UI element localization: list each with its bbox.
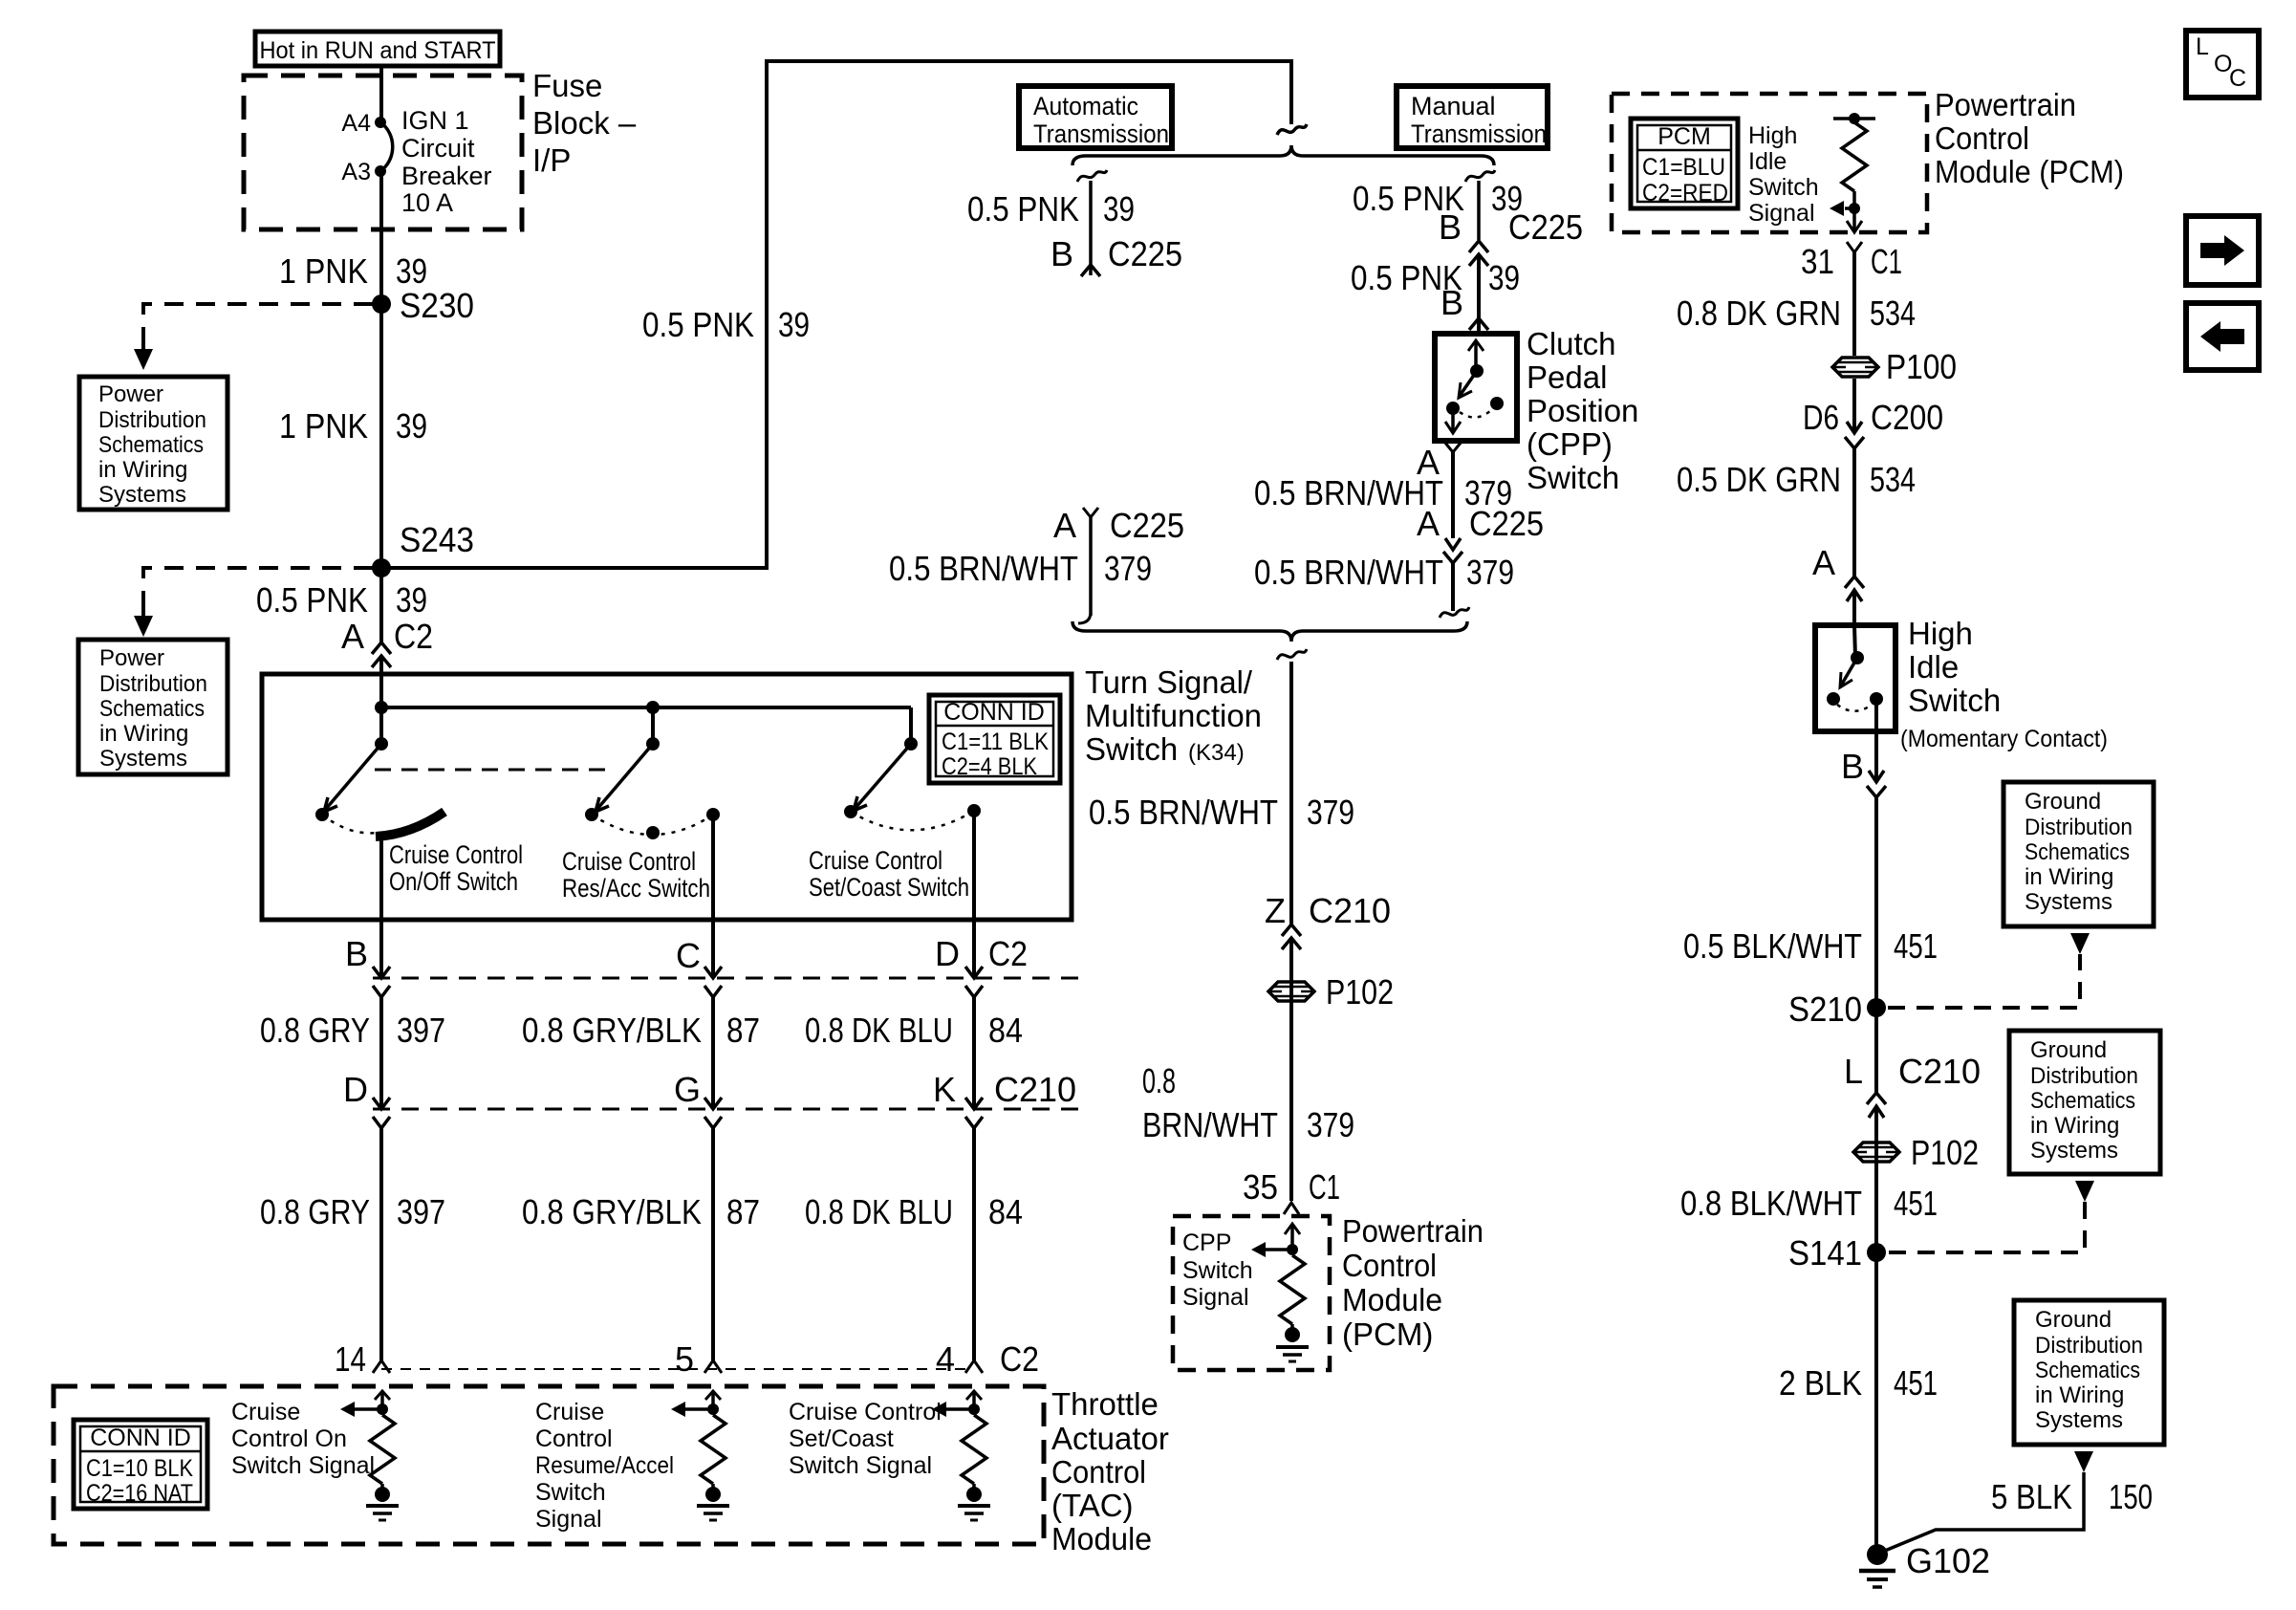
cruise control on switch signal label xyxy=(231,1399,375,1479)
svg-text:Systems: Systems xyxy=(98,482,186,508)
cruise control on/off switch label xyxy=(389,840,523,896)
svg-text:39: 39 xyxy=(778,305,810,344)
TAC cruise control set/coast circuit xyxy=(932,1391,990,1520)
svg-text:PCM: PCM xyxy=(1657,123,1711,150)
svg-text:451: 451 xyxy=(1894,1363,1938,1403)
svg-text:C1=BLU: C1=BLU xyxy=(1642,154,1725,181)
wire break squiggle top center xyxy=(1277,124,1307,135)
fork at PCM pin 35 xyxy=(1284,1203,1299,1214)
svg-text:0.5 PNK: 0.5 PNK xyxy=(256,580,368,620)
Automatic Transmission tag box xyxy=(1019,86,1172,148)
dashed reference from S141 xyxy=(1888,1181,2094,1252)
pin labels 14 5 4 C2 xyxy=(335,1339,1039,1379)
wire label 0.5 BRN/WHT 379 center xyxy=(1089,793,1354,832)
manual transmission branch wire xyxy=(1465,170,1495,240)
svg-text:P102: P102 xyxy=(1911,1133,1979,1172)
svg-text:Switch: Switch xyxy=(1908,683,2001,718)
svg-text:A: A xyxy=(1053,506,1076,545)
Throttle Actuator Control TAC Module annotation xyxy=(1051,1386,1169,1556)
wire from high idle switch pin B xyxy=(1874,699,1878,782)
wire label 0.5 PNK 39 below S243 xyxy=(256,580,427,620)
svg-text:Idle: Idle xyxy=(1908,649,1959,685)
Manual Transmission tag box xyxy=(1397,86,1548,148)
mechanical linkage dashed line xyxy=(375,769,608,772)
Power Distribution Schematics box 1 xyxy=(79,377,227,510)
pin 35 connector C1 xyxy=(1243,1167,1340,1207)
pin Z connector C210 xyxy=(1265,891,1391,930)
wire D from set/coast switch xyxy=(972,811,976,978)
pin L connector C210 right xyxy=(1844,1052,1981,1091)
pin B connector C225 manual xyxy=(1439,207,1583,247)
svg-text:A: A xyxy=(1812,543,1835,582)
inline connector chevrons at A xyxy=(1845,577,1864,601)
svg-text:in Wiring: in Wiring xyxy=(98,457,187,483)
svg-text:C225: C225 xyxy=(1469,504,1544,543)
svg-text:4: 4 xyxy=(936,1339,955,1379)
svg-text:Hot in RUN and START: Hot in RUN and START xyxy=(260,37,496,64)
svg-text:Ground: Ground xyxy=(2035,1307,2112,1333)
wire label 0.8 DK GRN 534 xyxy=(1677,294,1916,333)
svg-text:S141: S141 xyxy=(1788,1233,1862,1273)
svg-text:G: G xyxy=(674,1070,701,1109)
svg-text:Transmission: Transmission xyxy=(1033,120,1169,148)
svg-text:Distribution: Distribution xyxy=(2025,815,2133,840)
wire connector to switch box xyxy=(379,656,383,707)
svg-text:Control: Control xyxy=(1051,1454,1146,1490)
svg-text:Cruise Control: Cruise Control xyxy=(389,840,523,869)
CONN ID table in TAC box xyxy=(74,1420,207,1509)
svg-text:Control On: Control On xyxy=(231,1425,347,1452)
svg-text:G102: G102 xyxy=(1906,1541,1990,1580)
wire label 0.5 BLK/WHT 451 xyxy=(1683,926,1938,966)
High Idle Switch annotation xyxy=(1900,616,2108,752)
svg-text:Module: Module xyxy=(1051,1521,1152,1556)
svg-text:Signal: Signal xyxy=(1182,1284,1249,1311)
inline connector C210 chevrons center xyxy=(1282,925,1301,949)
svg-text:0.5 DK GRN: 0.5 DK GRN xyxy=(1677,460,1841,499)
switch feed bus inside box xyxy=(375,701,911,714)
wire connector to CPP switch xyxy=(1477,254,1481,334)
automatic transmission branch wire xyxy=(1077,170,1107,276)
svg-text:in Wiring: in Wiring xyxy=(2035,1382,2124,1408)
svg-text:Schematics: Schematics xyxy=(98,432,204,458)
svg-text:379: 379 xyxy=(1104,549,1152,588)
svg-text:Cruise: Cruise xyxy=(231,1399,300,1425)
svg-text:On/Off Switch: On/Off Switch xyxy=(389,867,518,896)
svg-text:0.5 BRN/WHT: 0.5 BRN/WHT xyxy=(1254,473,1443,512)
pin labels B C D C2 xyxy=(345,934,1028,975)
svg-text:0.8 DK GRN: 0.8 DK GRN xyxy=(1677,294,1841,333)
TAC connector thin dashed line xyxy=(381,1368,974,1370)
wire label 0.5 BRN/WHT 379 automatic side xyxy=(889,549,1152,588)
svg-text:Switch: Switch xyxy=(1085,731,1178,767)
wire label 1 PNK 39 second xyxy=(279,406,427,446)
svg-text:Cruise Control: Cruise Control xyxy=(789,1399,942,1425)
svg-text:84: 84 xyxy=(988,1011,1023,1050)
svg-text:High: High xyxy=(1748,122,1797,149)
svg-text:C: C xyxy=(2229,65,2246,92)
wire S230 to S243 xyxy=(379,304,383,568)
wire B to S210 xyxy=(1874,797,1878,1093)
svg-text:35: 35 xyxy=(1243,1167,1278,1207)
PCM lower dashed box xyxy=(1173,1216,1330,1370)
svg-text:A3: A3 xyxy=(341,159,371,185)
svg-text:Ground: Ground xyxy=(2030,1037,2107,1063)
svg-text:Schematics: Schematics xyxy=(2025,839,2130,865)
svg-text:C2=16 NAT: C2=16 NAT xyxy=(86,1480,193,1507)
svg-text:379: 379 xyxy=(1307,793,1354,832)
svg-text:C200: C200 xyxy=(1871,398,1943,437)
inline connector C225 chevrons manual xyxy=(1469,241,1488,266)
wire label 0.5 BRN/WHT 379 below CPP xyxy=(1254,473,1512,512)
svg-text:C1: C1 xyxy=(1309,1167,1340,1207)
svg-text:C210: C210 xyxy=(994,1070,1076,1109)
svg-text:0.5 BRN/WHT: 0.5 BRN/WHT xyxy=(1254,553,1443,592)
svg-text:L: L xyxy=(1844,1052,1863,1091)
wire to P102 center xyxy=(1289,938,1293,1201)
svg-text:Res/Acc Switch: Res/Acc Switch xyxy=(562,874,710,903)
TAC connector chevrons xyxy=(373,1360,983,1373)
svg-text:Throttle: Throttle xyxy=(1051,1386,1159,1422)
svg-text:Automatic: Automatic xyxy=(1033,92,1138,120)
svg-text:31: 31 xyxy=(1801,242,1834,281)
inline connector C225 chevrons below CPP xyxy=(1443,538,1462,563)
svg-text:Schematics: Schematics xyxy=(99,696,205,722)
svg-text:10 A: 10 A xyxy=(401,188,453,217)
svg-text:Cruise Control: Cruise Control xyxy=(562,847,696,876)
TAC cruise control resume/accel circuit xyxy=(671,1391,729,1520)
svg-text:Schematics: Schematics xyxy=(2035,1358,2140,1383)
left arrow legend box xyxy=(2186,303,2259,370)
svg-text:451: 451 xyxy=(1894,1184,1938,1223)
wire label 2 BLK 451 xyxy=(1779,1363,1938,1403)
splice S243 xyxy=(372,520,474,577)
svg-text:39: 39 xyxy=(396,580,427,620)
inline connector chevrons at B xyxy=(1867,771,1886,797)
center wire brace to Z C210 xyxy=(1289,662,1293,925)
wire S243 down to connector A C2 xyxy=(379,568,383,642)
svg-text:Manual: Manual xyxy=(1411,92,1496,120)
inline connector C200 chevrons xyxy=(1845,422,1864,448)
svg-text:(K34): (K34) xyxy=(1188,740,1245,766)
svg-text:Block –: Block – xyxy=(532,105,637,141)
connector C2 dashed line xyxy=(373,977,1083,980)
svg-text:C: C xyxy=(676,936,701,975)
fork at PCM pin 31 xyxy=(1847,242,1862,356)
cruise control res/acc switch xyxy=(585,707,720,839)
wires to TAC module xyxy=(381,1128,974,1360)
svg-text:Control: Control xyxy=(535,1425,613,1452)
Hot in RUN and START box xyxy=(255,32,500,66)
high idle switch signal label xyxy=(1748,122,1819,227)
branch label 0.5 PNK 39 automatic xyxy=(967,189,1135,228)
svg-text:39: 39 xyxy=(1103,189,1135,228)
circuit breaker IGN 1 xyxy=(375,117,393,177)
svg-text:K: K xyxy=(933,1070,956,1109)
wire break squiggle below brace xyxy=(1277,649,1307,660)
svg-text:C225: C225 xyxy=(1108,234,1182,273)
svg-text:534: 534 xyxy=(1870,460,1916,499)
dashed reference line from S230 xyxy=(134,304,373,370)
svg-text:Set/Coast: Set/Coast xyxy=(789,1425,894,1452)
wire label 0.5 DK GRN 534 xyxy=(1677,460,1916,499)
svg-text:87: 87 xyxy=(726,1011,760,1050)
wire labels 0.8 GRY/BLK 87 row1 xyxy=(522,1011,760,1050)
svg-text:I/P: I/P xyxy=(532,142,571,178)
svg-text:(TAC): (TAC) xyxy=(1051,1488,1134,1523)
svg-text:Multifunction: Multifunction xyxy=(1085,698,1262,733)
svg-text:Switch Signal: Switch Signal xyxy=(789,1452,932,1479)
Ground Distribution box 1 xyxy=(2004,782,2154,926)
splice S230 xyxy=(372,286,474,325)
Ground Distribution box 3 xyxy=(2014,1300,2164,1445)
top distribution brace xyxy=(1072,145,1494,165)
svg-text:0.8 BLK/WHT: 0.8 BLK/WHT xyxy=(1680,1184,1862,1223)
svg-text:C2: C2 xyxy=(988,934,1028,973)
svg-text:CONN ID: CONN ID xyxy=(90,1425,191,1451)
svg-text:in Wiring: in Wiring xyxy=(2025,864,2113,890)
svg-text:84: 84 xyxy=(988,1192,1023,1231)
svg-text:Distribution: Distribution xyxy=(99,671,207,697)
svg-text:Powertrain: Powertrain xyxy=(1935,87,2076,122)
svg-text:0.8 GRY: 0.8 GRY xyxy=(260,1011,370,1050)
svg-text:Turn Signal/: Turn Signal/ xyxy=(1085,664,1253,700)
svg-text:B: B xyxy=(1051,234,1073,273)
svg-text:C225: C225 xyxy=(1508,207,1583,247)
svg-text:C210: C210 xyxy=(1898,1052,1981,1091)
splice S210 xyxy=(1788,990,1886,1029)
cruise control set/coast switch label xyxy=(809,846,969,902)
cruise control on/off switch xyxy=(315,707,444,837)
wire label 0.8 BLK/WHT 451 xyxy=(1680,1184,1938,1223)
svg-text:534: 534 xyxy=(1870,294,1916,333)
svg-text:Pedal: Pedal xyxy=(1527,359,1607,395)
pin labels D G K C210 xyxy=(343,1070,1076,1109)
svg-text:0.8 DK BLU: 0.8 DK BLU xyxy=(805,1011,953,1050)
pin D6 connector C200 xyxy=(1803,398,1943,437)
high idle switch signal circuit in PCM xyxy=(1830,113,1875,232)
svg-text:0.8 GRY: 0.8 GRY xyxy=(260,1192,370,1231)
svg-text:(PCM): (PCM) xyxy=(1342,1316,1433,1352)
cruise control resume/accel switch signal label xyxy=(535,1399,674,1533)
Turn Signal Multifunction Switch annotation xyxy=(1085,664,1262,767)
chevron at CPP pin B xyxy=(1469,318,1488,330)
svg-text:A: A xyxy=(1417,504,1440,543)
svg-text:0.8: 0.8 xyxy=(1142,1061,1176,1100)
pin A connector C2 labels xyxy=(341,617,433,656)
feed wire S243 to top rail xyxy=(381,61,1291,568)
svg-text:150: 150 xyxy=(2109,1477,2153,1516)
svg-text:CONN ID: CONN ID xyxy=(943,699,1045,726)
svg-text:C2=4 BLK: C2=4 BLK xyxy=(942,753,1037,780)
svg-text:0.8 GRY/BLK: 0.8 GRY/BLK xyxy=(522,1011,702,1050)
wire chevron to high idle switch xyxy=(1852,590,1856,625)
high idle switch element xyxy=(1827,625,1883,711)
connector C210 dashed line xyxy=(373,1108,1083,1111)
svg-text:Systems: Systems xyxy=(2035,1407,2123,1433)
TAC cruise control on circuit xyxy=(340,1391,399,1520)
Powertrain Control Module PCM upper annotation xyxy=(1935,87,2124,189)
svg-text:BRN/WHT: BRN/WHT xyxy=(1142,1105,1278,1144)
svg-text:0.8 GRY/BLK: 0.8 GRY/BLK xyxy=(522,1192,702,1231)
pass-through grommet P102 center xyxy=(1268,972,1394,1012)
svg-text:C2: C2 xyxy=(1000,1339,1039,1379)
connector arrows at C2 row xyxy=(373,967,983,997)
svg-text:D: D xyxy=(343,1070,368,1109)
Powertrain Control Module PCM lower annotation xyxy=(1342,1213,1484,1352)
svg-text:Switch Signal: Switch Signal xyxy=(231,1452,375,1479)
svg-text:Actuator: Actuator xyxy=(1051,1421,1169,1456)
CPP switch signal circuit in PCM xyxy=(1251,1224,1309,1361)
svg-text:Power: Power xyxy=(98,381,163,407)
Turn Signal Multifunction Switch box xyxy=(262,674,1072,920)
wire to brace manual side xyxy=(1440,563,1469,618)
svg-text:C1=11 BLK: C1=11 BLK xyxy=(942,729,1049,755)
dashed reference line from S243 xyxy=(134,568,373,637)
svg-text:Signal: Signal xyxy=(535,1506,602,1533)
svg-text:5: 5 xyxy=(675,1339,694,1379)
Power Distribution Schematics box 2 xyxy=(78,640,227,774)
svg-text:Transmission: Transmission xyxy=(1411,120,1547,148)
wire labels 0.8 DK BLU 84 row2 xyxy=(805,1192,1023,1231)
wire labels 0.8 GRY 397 row2 xyxy=(260,1192,445,1231)
wires between connector rows xyxy=(381,997,974,1109)
svg-text:A4: A4 xyxy=(341,110,371,137)
splice S141 xyxy=(1788,1233,1886,1273)
svg-text:2 BLK: 2 BLK xyxy=(1779,1363,1862,1403)
svg-text:C2: C2 xyxy=(394,617,433,656)
wire label 0.5 PNK 39 to CPP xyxy=(1351,258,1520,297)
cruise control set/coast switch signal label xyxy=(789,1399,942,1479)
svg-text:Resume/Accel: Resume/Accel xyxy=(535,1452,674,1479)
CONN ID table in switch box xyxy=(929,695,1060,783)
svg-text:S230: S230 xyxy=(400,286,474,325)
svg-text:Switch: Switch xyxy=(535,1479,606,1506)
pass-through grommet P102 right xyxy=(1853,1133,1979,1172)
wire labels 0.8 GRY 397 row1 xyxy=(260,1011,445,1050)
svg-text:Powertrain: Powertrain xyxy=(1342,1213,1484,1249)
svg-text:C1: C1 xyxy=(1871,242,1902,281)
svg-text:Control: Control xyxy=(1935,120,2029,156)
svg-text:Control: Control xyxy=(1342,1248,1437,1283)
svg-text:Distribution: Distribution xyxy=(2035,1333,2143,1359)
svg-text:5 BLK: 5 BLK xyxy=(1991,1477,2072,1516)
PCM connector id table xyxy=(1631,119,1738,208)
svg-text:39: 39 xyxy=(1488,258,1520,297)
svg-text:Schematics: Schematics xyxy=(2030,1088,2135,1114)
LOC legend box xyxy=(2186,31,2259,98)
ground G102 xyxy=(1859,1541,1990,1587)
pin B connector C225 automatic xyxy=(1051,234,1182,273)
svg-text:397: 397 xyxy=(397,1011,445,1050)
svg-text:C210: C210 xyxy=(1309,891,1391,930)
svg-text:Systems: Systems xyxy=(99,746,187,772)
svg-text:0.5 PNK: 0.5 PNK xyxy=(642,305,754,344)
svg-text:High: High xyxy=(1908,616,1973,651)
automatic side connector stub xyxy=(1078,508,1098,623)
svg-text:A: A xyxy=(341,617,364,656)
pin A connector C225 automatic side xyxy=(1053,506,1184,545)
svg-text:Systems: Systems xyxy=(2030,1138,2118,1164)
pin 31 connector C1 xyxy=(1801,242,1902,281)
wire labels 0.8 GRY/BLK 87 row2 xyxy=(522,1192,760,1231)
dashed reference from S210 xyxy=(1888,933,2090,1008)
cruise control set/coast switch xyxy=(844,707,981,830)
pin A connector C225 below CPP xyxy=(1417,504,1544,543)
svg-text:C1=10 BLK: C1=10 BLK xyxy=(86,1455,193,1482)
svg-text:Distribution: Distribution xyxy=(2030,1063,2138,1089)
svg-text:39: 39 xyxy=(396,251,427,291)
svg-text:0.5 BRN/WHT: 0.5 BRN/WHT xyxy=(889,549,1078,588)
Ground Distribution box 2 xyxy=(2009,1031,2160,1174)
svg-text:in Wiring: in Wiring xyxy=(2030,1113,2119,1139)
wire P100 to C200 xyxy=(1852,379,1856,433)
svg-text:Cruise Control: Cruise Control xyxy=(809,846,942,875)
svg-text:Switch: Switch xyxy=(1748,174,1819,201)
wire label 0.5 BRN/WHT 379 manual side xyxy=(1254,553,1514,592)
svg-text:Switch: Switch xyxy=(1182,1257,1253,1284)
svg-text:Switch: Switch xyxy=(1527,460,1619,495)
svg-text:C2=RED: C2=RED xyxy=(1642,180,1728,207)
svg-text:L: L xyxy=(2196,33,2209,60)
branch label 0.5 PNK 39 manual xyxy=(1353,179,1523,218)
svg-text:Z: Z xyxy=(1265,891,1286,930)
svg-text:C225: C225 xyxy=(1110,506,1184,545)
svg-text:379: 379 xyxy=(1466,553,1514,592)
wire label 1 PNK 39 xyxy=(279,251,427,291)
svg-text:Clutch: Clutch xyxy=(1527,326,1616,361)
wire label 0.8 BRN/WHT 379 center xyxy=(1142,1061,1354,1144)
svg-text:451: 451 xyxy=(1894,926,1938,966)
wire chevron to P102 right xyxy=(1874,1106,1878,1555)
right arrow legend box xyxy=(2186,216,2259,285)
svg-text:379: 379 xyxy=(1307,1105,1354,1144)
svg-text:Cruise: Cruise xyxy=(535,1399,604,1425)
svg-text:Circuit: Circuit xyxy=(401,134,475,163)
svg-text:Power: Power xyxy=(99,645,164,671)
svg-text:Fuse: Fuse xyxy=(532,68,602,103)
svg-text:14: 14 xyxy=(335,1339,366,1379)
svg-text:P100: P100 xyxy=(1886,347,1957,386)
wire label 5 BLK 150 xyxy=(1991,1477,2153,1516)
wire C from res/acc switch xyxy=(711,815,715,978)
svg-text:IGN 1: IGN 1 xyxy=(401,106,469,135)
CPP switch element xyxy=(1445,340,1504,433)
wire labels 0.8 DK BLU 84 row1 xyxy=(805,1011,1023,1050)
svg-text:Module (PCM): Module (PCM) xyxy=(1935,154,2124,189)
TAC module dashed box xyxy=(54,1386,1044,1544)
IGN 1 Circuit Breaker 10 A label xyxy=(401,106,492,217)
High Idle Switch box xyxy=(1815,625,1895,731)
fork at CPP switch output xyxy=(1444,442,1462,538)
wire C200 to A chevron xyxy=(1852,448,1856,577)
svg-text:in Wiring: in Wiring xyxy=(99,721,188,747)
svg-text:Ground: Ground xyxy=(2025,789,2101,815)
wire from Hot box to fuse block xyxy=(379,66,383,122)
svg-text:Breaker: Breaker xyxy=(401,162,492,190)
svg-text:0.5 BRN/WHT: 0.5 BRN/WHT xyxy=(1089,793,1278,832)
svg-text:B: B xyxy=(1440,283,1463,322)
bottom gathering brace xyxy=(1072,621,1467,642)
svg-text:0.5 PNK: 0.5 PNK xyxy=(967,189,1079,228)
svg-text:1 PNK: 1 PNK xyxy=(279,251,368,291)
wire breaker to S230 xyxy=(379,171,383,304)
svg-text:397: 397 xyxy=(397,1192,445,1231)
svg-text:Module: Module xyxy=(1342,1282,1442,1317)
Clutch Pedal Position CPP Switch annotation xyxy=(1527,326,1638,495)
svg-text:0.8 DK BLU: 0.8 DK BLU xyxy=(805,1192,953,1231)
Fuse Block dashed box xyxy=(244,76,522,229)
